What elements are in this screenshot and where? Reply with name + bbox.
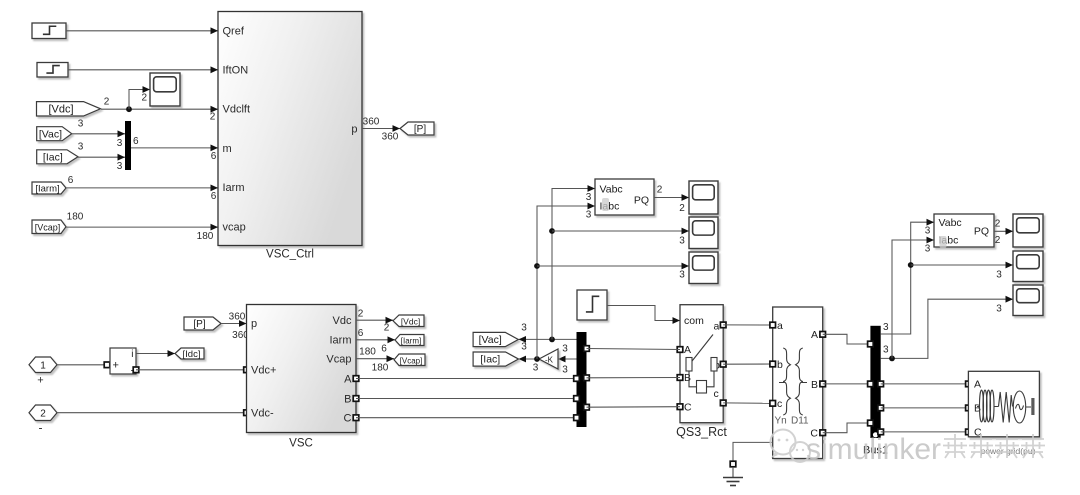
port square bar1 left C: [574, 415, 580, 421]
svg-text:[Vcap]: [Vcap]: [35, 222, 61, 232]
wire PQ1 to scope SA: [654, 194, 689, 201]
svg-text:Yn: Yn: [775, 416, 787, 427]
step source Step1: [32, 23, 66, 39]
wire bar1 c to QS3 C: [587, 406, 681, 409]
wire VSC A to measurement bar: [356, 378, 577, 380]
svg-text:-: -: [39, 421, 43, 435]
wire bar2 A to source A: [881, 383, 969, 385]
From tag [Iarm] upper: [32, 182, 66, 195]
svg-text:C: C: [344, 412, 352, 424]
wire [Iarm] to VSC_Ctrl: [66, 185, 218, 192]
junction on Vdc wire: [126, 106, 132, 112]
port square bar2 right B: [878, 405, 884, 411]
svg-text:180: 180: [359, 347, 376, 358]
mouse cursor artifact: [602, 198, 609, 211]
port square QS3 A: [677, 347, 683, 353]
svg-text:[P]: [P]: [193, 319, 205, 330]
svg-text:3: 3: [117, 161, 123, 172]
wire sensor minus to VSC Vdc+: [136, 369, 247, 371]
port square QS3 C: [677, 404, 683, 410]
svg-text:2: 2: [995, 235, 1001, 246]
port square transformer b: [770, 361, 776, 367]
svg-text:Vabc: Vabc: [939, 217, 962, 229]
svg-text:3: 3: [883, 322, 889, 333]
svg-text:[Vac]: [Vac]: [479, 334, 502, 346]
wire QS3 c to transformer c: [723, 402, 773, 404]
subsystem VSC: [247, 305, 357, 433]
step source Step3: [577, 290, 607, 320]
wire Vabc branch to scope S2: [911, 262, 1013, 269]
mouse cursor artifact on PQ2: [940, 236, 947, 248]
wire bar2 B to source B: [881, 407, 969, 409]
wire bar2 Vabc to PQ2 Vabc: [881, 219, 934, 334]
svg-text:3: 3: [562, 344, 568, 355]
scope ScopeVdc: [150, 73, 180, 106]
svg-text:3: 3: [586, 210, 592, 221]
port square VSC C: [353, 415, 359, 421]
svg-text:[P]: [P]: [414, 124, 426, 135]
wire [Iac] to Mux1: [78, 154, 125, 161]
svg-text:6: 6: [211, 191, 217, 202]
svg-text:m: m: [223, 143, 232, 155]
svg-text:[Vcap]: [Vcap]: [400, 356, 423, 365]
wire branch to scope ScopeVdc: [129, 86, 150, 109]
wire Step2 to IftON: [68, 66, 218, 73]
wire bar1 Iabc tap to gain: [558, 356, 577, 363]
svg-text:Vdc+: Vdc+: [251, 365, 276, 377]
watermark wechat icon: [771, 430, 811, 463]
Goto tag [Iarm] right: [395, 335, 424, 346]
svg-text:PQ: PQ: [974, 225, 989, 237]
port square source B: [966, 405, 972, 411]
subsystem VSC_Ctrl: [218, 12, 362, 246]
port square at VSC Vdc-: [244, 410, 250, 416]
wire QS3 b to transformer b: [723, 363, 773, 365]
svg-text:3: 3: [521, 323, 527, 334]
port square bar2 left B: [868, 381, 874, 387]
port square at current sensor - terminal: [133, 367, 139, 373]
port square QS3 b: [720, 361, 726, 367]
current measurement sensor i: [110, 348, 136, 377]
Goto tag [Vcap] right: [394, 354, 425, 366]
svg-text:A: A: [974, 378, 981, 390]
wire Iac branch to scope SC: [537, 263, 689, 270]
inport 2: [29, 405, 57, 421]
port square source C: [966, 429, 972, 435]
port square bar2 right A: [878, 381, 884, 387]
svg-text:3: 3: [679, 270, 685, 281]
junction on Iabc tap: [889, 356, 895, 362]
svg-text:180: 180: [67, 212, 84, 223]
three-phase transformer D11: [773, 307, 823, 459]
svg-text:Vcap: Vcap: [326, 353, 351, 365]
svg-text:B: B: [684, 372, 691, 384]
port square QS3 c: [720, 400, 726, 406]
svg-text:i: i: [131, 349, 133, 360]
scope SA: [689, 181, 718, 214]
svg-text:[Iac]: [Iac]: [43, 151, 63, 163]
port square ground: [730, 461, 736, 467]
wire [Vdc] to Vdclft: [101, 106, 218, 113]
svg-text:QS3_Rct: QS3_Rct: [676, 425, 727, 439]
wire Iac tap up to PQ1 Iabc: [537, 203, 595, 359]
port square bar2 left C: [868, 420, 874, 426]
port square bar1 left A: [574, 376, 580, 382]
port square transformer a: [770, 322, 776, 328]
port square bar1 right b: [584, 375, 590, 381]
Goto tag [Vac] lower: [473, 332, 518, 346]
svg-text:3: 3: [78, 142, 84, 153]
port square transformer A: [820, 332, 826, 338]
wire Vac branch to scope SB: [552, 228, 689, 235]
svg-text:a: a: [714, 321, 720, 333]
three-phase breaker QS3_Rct: [680, 305, 723, 423]
wire VSC B to measurement bar: [356, 398, 577, 400]
wire bar1 Vabc tap to Goto [Vac]: [519, 336, 577, 343]
wire p to Goto [P]: [362, 125, 400, 132]
Goto tag [Idc]: [175, 348, 204, 360]
port square source A: [966, 381, 972, 387]
svg-text:360: 360: [363, 117, 380, 128]
svg-text:VSC_Ctrl: VSC_Ctrl: [266, 249, 314, 261]
junction on Vac tap: [549, 337, 555, 343]
wire [Vac] to Mux1: [72, 130, 125, 137]
svg-text:3: 3: [521, 342, 527, 353]
svg-text:p: p: [351, 123, 357, 135]
svg-text:c: c: [777, 398, 782, 410]
svg-text:[Iarm]: [Iarm]: [35, 184, 59, 195]
scope S3: [1013, 285, 1043, 316]
step source Step2: [37, 63, 68, 78]
wire PQ2 to scope S1: [994, 228, 1013, 235]
scope SC: [689, 252, 718, 284]
wire transformer C to bar2: [823, 423, 871, 433]
svg-text:2: 2: [657, 185, 663, 196]
From tag [Vdc]: [37, 102, 101, 116]
scope S1: [1013, 214, 1043, 247]
svg-text:360: 360: [382, 132, 399, 143]
junction on Iac tap: [534, 356, 540, 362]
wire Mux1 to m: [131, 145, 218, 152]
svg-text:Qref: Qref: [223, 25, 245, 37]
svg-text:A: A: [344, 373, 352, 385]
junction on Vac vertical: [549, 228, 555, 234]
svg-text:a: a: [777, 320, 783, 332]
port square QS3 B: [677, 375, 683, 381]
scope S2: [1013, 251, 1043, 282]
wire [Vcap] to VSC_Ctrl: [66, 224, 218, 231]
wire transformer B to bar2: [823, 383, 871, 385]
svg-text:360: 360: [229, 312, 246, 323]
scope SB: [689, 217, 718, 249]
wire transformer neutral to ground: [733, 442, 773, 461]
svg-text:[Vac]: [Vac]: [39, 128, 62, 140]
svg-text:2: 2: [142, 93, 148, 104]
wire transformer A to bar2: [823, 334, 871, 344]
wire Iabc branch to PQ2 Iabc: [892, 237, 934, 359]
svg-text:[Vdc]: [Vdc]: [401, 316, 420, 326]
svg-text:3: 3: [996, 304, 1002, 315]
svg-text:B: B: [344, 393, 351, 405]
svg-text:[Vdc]: [Vdc]: [48, 103, 73, 115]
junction on Vabc vertical: [908, 262, 914, 268]
wire VSC Vdc to Goto [Vdc]: [356, 317, 393, 324]
wire i output to Goto [Idc]: [136, 350, 175, 357]
inport 1: [29, 357, 57, 373]
From tag [Iac] upper: [37, 150, 78, 164]
svg-text:3: 3: [78, 119, 84, 130]
wire VSC C to measurement bar: [356, 417, 577, 419]
port square transformer c: [770, 401, 776, 407]
svg-text:3: 3: [117, 138, 123, 149]
watermark CJK characters: [943, 434, 1045, 458]
port square bar1 right c: [584, 404, 590, 410]
svg-text:3: 3: [679, 236, 685, 247]
port square transformer B: [820, 381, 826, 387]
port square bar2 right C: [878, 429, 884, 435]
svg-text:Vdc-: Vdc-: [251, 407, 274, 419]
port square transformer C: [820, 430, 826, 436]
svg-text:3: 3: [996, 270, 1002, 281]
three-phase measurement bar B1: [870, 326, 880, 438]
port square bar1 left B: [574, 396, 580, 402]
svg-text:6: 6: [68, 175, 74, 186]
svg-text:6: 6: [133, 136, 139, 147]
Goto tag [P]: [400, 122, 434, 135]
svg-text:3: 3: [586, 192, 592, 203]
power measurement PQ2: [934, 214, 994, 247]
svg-text:PQ: PQ: [634, 195, 649, 207]
svg-text:2: 2: [104, 97, 110, 108]
svg-text:VSC: VSC: [289, 438, 313, 450]
wire bar1 a to QS3 A: [587, 349, 681, 350]
port square bar2 left A: [868, 341, 874, 347]
svg-text:3: 3: [562, 365, 568, 376]
svg-text:2: 2: [995, 219, 1001, 230]
svg-text:2: 2: [384, 323, 390, 334]
svg-text:A: A: [684, 344, 691, 356]
From tag [P] lower: [184, 317, 221, 330]
port square bar1 right a: [584, 346, 590, 352]
svg-text:+: +: [37, 375, 43, 387]
svg-text:vcap: vcap: [223, 221, 246, 233]
Goto tag [Iac] lower: [473, 352, 518, 366]
wire QS3 a to transformer a: [723, 324, 773, 326]
wire bar1 b to QS3 B: [587, 377, 681, 379]
svg-text:Vdclft: Vdclft: [223, 104, 251, 116]
svg-text:-K: -K: [545, 356, 554, 365]
svg-text:A: A: [811, 329, 818, 341]
port square VSC B: [353, 396, 359, 402]
svg-text:[Iac]: [Iac]: [480, 354, 500, 366]
wire Step1 to Qref: [66, 27, 218, 34]
svg-text:[Idc]: [Idc]: [183, 349, 201, 360]
three-phase measurement bar B0: [577, 332, 587, 427]
svg-text:simulinker: simulinker: [806, 433, 941, 466]
svg-text:3: 3: [883, 345, 889, 356]
wire inport1 to current sensor: [57, 364, 107, 366]
port square at current sensor + terminal: [104, 362, 110, 368]
three-phase source block: [968, 371, 1039, 438]
svg-text:Iarm: Iarm: [223, 182, 245, 194]
svg-text:Vdc: Vdc: [333, 315, 352, 327]
wire Vac tap up to PQ1 Vabc: [552, 185, 595, 339]
svg-text:D11: D11: [791, 416, 809, 427]
From tag [Vac] upper: [37, 127, 72, 141]
svg-text:com: com: [684, 315, 704, 327]
svg-text:2: 2: [210, 112, 216, 123]
svg-text:2: 2: [358, 309, 364, 320]
svg-text:180: 180: [197, 231, 214, 242]
svg-text:180: 180: [372, 363, 389, 374]
mux Mux1: [125, 121, 131, 170]
svg-text:3: 3: [925, 244, 931, 255]
wire gain to Goto [Iac]: [519, 356, 540, 363]
port square VSC A: [353, 376, 359, 382]
svg-text:B: B: [811, 379, 818, 391]
wire Step3 to QS3 com: [607, 306, 680, 324]
svg-text:3: 3: [925, 226, 931, 237]
svg-text:b: b: [777, 359, 783, 371]
gain -K (sign inverter): [539, 349, 558, 369]
svg-text:Vabc: Vabc: [600, 183, 623, 195]
svg-text:IftON: IftON: [223, 65, 249, 77]
junction on Iac vertical: [534, 263, 540, 269]
svg-text:6: 6: [211, 151, 217, 162]
svg-text:[Iarm]: [Iarm]: [401, 337, 421, 346]
wire bar2 Iabc to scope S3: [881, 296, 1013, 359]
Goto tag [Vdc] right: [393, 315, 424, 327]
svg-text:c: c: [714, 388, 719, 400]
power measurement PQ1: [595, 179, 654, 215]
svg-text:6: 6: [381, 344, 387, 355]
svg-text:3: 3: [533, 363, 539, 374]
svg-text:Iarm: Iarm: [330, 335, 352, 347]
ground symbol: [723, 467, 743, 486]
svg-text:p: p: [251, 318, 257, 330]
svg-text:2: 2: [679, 203, 685, 214]
port square at VSC Vdc+: [244, 367, 250, 373]
wire VSC Vcap to Goto [Vcap]: [356, 355, 394, 362]
svg-text:+: +: [113, 359, 119, 371]
wire bar2 C to source C: [881, 431, 969, 433]
wire inport2 to VSC Vdc-: [57, 412, 247, 414]
svg-text:6: 6: [358, 328, 364, 339]
svg-text:2: 2: [40, 409, 46, 420]
wire VSC Iarm to Goto [Iarm]: [356, 336, 395, 343]
svg-text:1: 1: [40, 361, 46, 372]
port square QS3 a: [720, 322, 726, 328]
From tag [Vcap] upper: [32, 220, 66, 234]
wire [P] to VSC p: [221, 320, 247, 327]
svg-text:C: C: [684, 402, 692, 414]
